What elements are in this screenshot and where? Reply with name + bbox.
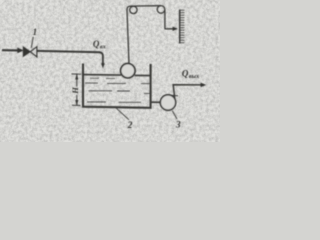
rope: top span between pulleys: [130, 5, 162, 7]
pump flange tick: [171, 94, 178, 97]
svg-text:H: H: [70, 87, 80, 95]
paper background: [0, 0, 220, 142]
left pulley: [130, 6, 137, 13]
svg-text:вых: вых: [189, 73, 199, 80]
water surface line: [83, 74, 121, 77]
svg-text:вх: вх: [100, 43, 106, 50]
valve V (bowtie): [23, 47, 37, 57]
liquid hatching dashes: [85, 78, 151, 102]
pump outlet pipe up and right: [173, 85, 201, 100]
svg-text:1: 1: [33, 27, 38, 37]
rope: right pulley down to pointer: [164, 10, 166, 29]
inlet pipe (horizontal): [37, 51, 100, 52]
label Q_vyx: [182, 68, 199, 80]
float (on water surface): [121, 63, 135, 77]
outlet flow arrowhead: [201, 83, 207, 87]
outlet pipe from tank to pump: [151, 101, 161, 103]
rope: float to left pulley: [127, 6, 130, 64]
leader line for label 1: [31, 37, 33, 48]
inlet arrowhead into tank: [101, 63, 105, 68]
svg-text:3: 3: [175, 121, 181, 131]
H dimension line: [72, 74, 82, 106]
leader line for label 2: [116, 108, 129, 120]
leader line for label 3: [172, 111, 177, 119]
tank 2 (walls): [83, 64, 151, 108]
svg-text:Q: Q: [93, 39, 100, 49]
right pulley: [157, 6, 165, 14]
scale (ruler with ticks): [180, 10, 185, 44]
inlet pipe bend + down segment: [99, 52, 103, 64]
label Q_vx: [93, 39, 106, 50]
svg-text:2: 2: [127, 121, 133, 131]
pointer arrow to scale: [165, 28, 174, 30]
pump 3: [160, 95, 175, 110]
inlet flow arrow: [2, 48, 24, 54]
